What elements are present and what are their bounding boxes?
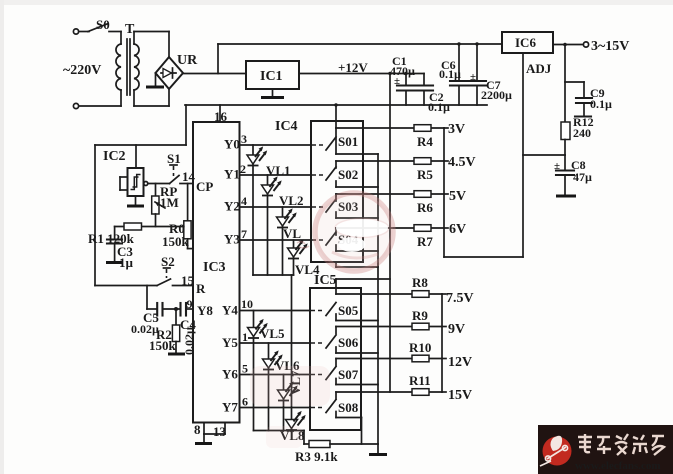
svg-text:R9: R9 [412, 308, 428, 323]
svg-text:0.1µ: 0.1µ [428, 100, 450, 114]
svg-text:VL2: VL2 [279, 193, 304, 208]
svg-text:ADJ: ADJ [526, 61, 552, 76]
svg-text:VL1: VL1 [266, 163, 291, 178]
svg-text:5V: 5V [449, 189, 466, 204]
svg-text:R4: R4 [417, 134, 433, 149]
svg-text:12V: 12V [448, 355, 472, 370]
svg-text:3: 3 [241, 132, 247, 146]
svg-text:Y6: Y6 [222, 367, 238, 382]
svg-text:S02: S02 [338, 167, 358, 182]
svg-text:6: 6 [242, 395, 248, 409]
svg-text:S2: S2 [161, 254, 175, 269]
svg-text:150k: 150k [149, 338, 177, 353]
svg-text:IC6: IC6 [515, 35, 536, 50]
svg-text:4: 4 [241, 194, 247, 208]
svg-text:R: R [196, 281, 206, 296]
svg-text:2200µ: 2200µ [481, 88, 512, 102]
svg-text:9: 9 [187, 297, 193, 311]
svg-text:6V: 6V [449, 222, 466, 237]
svg-text:47µ: 47µ [573, 170, 592, 184]
svg-text:150k: 150k [162, 234, 190, 249]
svg-text:7.5V: 7.5V [446, 291, 474, 306]
svg-text:S0: S0 [96, 17, 110, 32]
svg-text:S01: S01 [338, 134, 358, 149]
svg-text:15V: 15V [448, 388, 472, 403]
svg-text:1µ: 1µ [119, 255, 134, 270]
svg-text:R11: R11 [409, 373, 431, 388]
svg-text:+12V: +12V [338, 60, 368, 75]
svg-text:S06: S06 [338, 335, 359, 350]
svg-text:S08: S08 [338, 400, 359, 415]
svg-text:10: 10 [241, 297, 253, 311]
svg-text:R10: R10 [409, 340, 431, 355]
svg-text:R7: R7 [417, 234, 433, 249]
svg-text:UR: UR [177, 53, 198, 68]
svg-text:0.1µ: 0.1µ [590, 97, 612, 111]
svg-text:R3 9.1k: R3 9.1k [295, 449, 338, 464]
svg-text:R5: R5 [417, 167, 433, 182]
svg-text:240: 240 [573, 126, 591, 140]
svg-text:IC5: IC5 [314, 273, 337, 288]
svg-text:±: ± [470, 71, 476, 83]
svg-text:R6: R6 [417, 200, 433, 215]
svg-text:3~15V: 3~15V [591, 39, 629, 54]
svg-text:IC1: IC1 [260, 69, 283, 84]
svg-text:IC3: IC3 [203, 260, 226, 275]
svg-text:5: 5 [242, 362, 248, 376]
svg-text:7: 7 [241, 227, 247, 241]
svg-text:S05: S05 [338, 303, 359, 318]
svg-text:2: 2 [240, 162, 246, 176]
svg-text:VL5: VL5 [260, 326, 285, 341]
svg-text:0.1µ: 0.1µ [439, 67, 461, 81]
svg-text:8: 8 [194, 422, 201, 437]
svg-text:Y1: Y1 [224, 167, 240, 182]
svg-text:CP: CP [196, 179, 213, 194]
svg-text:R8: R8 [412, 275, 428, 290]
svg-text:±: ± [554, 160, 560, 172]
svg-text:Y0: Y0 [224, 137, 240, 152]
svg-text:Y8: Y8 [197, 303, 213, 318]
svg-text:Y7: Y7 [222, 400, 238, 415]
svg-text:9V: 9V [448, 322, 465, 337]
svg-text:S1: S1 [167, 151, 181, 166]
svg-text:16: 16 [214, 109, 228, 124]
svg-text:~220V: ~220V [63, 63, 101, 78]
svg-text:0.02µ: 0.02µ [131, 322, 159, 336]
svg-text:Y4: Y4 [222, 303, 238, 318]
svg-text:S07: S07 [338, 367, 359, 382]
svg-text:±: ± [394, 75, 400, 87]
svg-text:1M: 1M [160, 195, 179, 210]
svg-text:1: 1 [242, 330, 248, 344]
svg-text:IC2: IC2 [103, 149, 126, 164]
svg-text:Y5: Y5 [222, 335, 238, 350]
svg-text:4.5V: 4.5V [448, 155, 476, 170]
svg-text:IC4: IC4 [275, 119, 298, 134]
svg-text:www.elecfans.com: www.elecfans.com [575, 460, 661, 472]
svg-text:Y2: Y2 [224, 199, 240, 214]
svg-text:3V: 3V [448, 122, 465, 137]
svg-text:Y3: Y3 [224, 232, 240, 247]
svg-text:VL: VL [283, 226, 301, 241]
